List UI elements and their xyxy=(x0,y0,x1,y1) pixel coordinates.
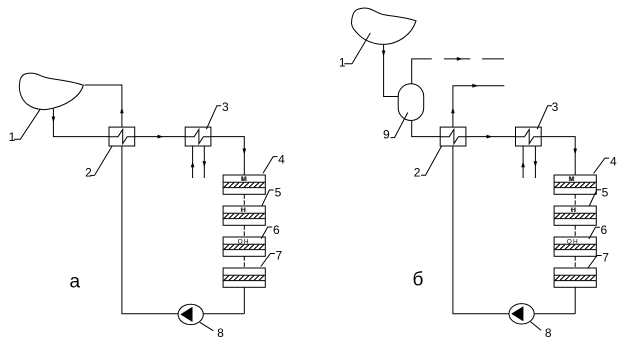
filter 6 (left) xyxy=(223,237,265,256)
cooler 3 (right) xyxy=(516,127,542,146)
cloud 1 (right source) xyxy=(352,8,417,44)
filter 5 (right) xyxy=(554,206,596,225)
svg-text:2: 2 xyxy=(414,166,421,180)
wire separator bottom to HX2 (right) xyxy=(412,121,441,137)
heat exchanger 2 (left) xyxy=(109,127,135,146)
svg-text:6: 6 xyxy=(273,223,280,237)
connector filter5-filter6 (left, dashed) xyxy=(243,225,245,237)
flow arrow right xyxy=(487,135,493,139)
svg-text:M: M xyxy=(241,176,246,183)
connector filter4-filter5 (right, dashed) xyxy=(574,194,576,206)
svg-text:H: H xyxy=(244,238,249,245)
label 8 (right) leader xyxy=(531,322,541,331)
svg-text:7: 7 xyxy=(276,249,283,263)
filter 4 (left) xyxy=(223,175,265,194)
return line HX2 top going right xyxy=(453,86,504,127)
svg-text:б: б xyxy=(413,270,424,291)
separator 9 (vessel) xyxy=(398,84,424,121)
label 1 (left) leader xyxy=(14,109,40,140)
svg-text:H: H xyxy=(571,207,576,214)
svg-text:O: O xyxy=(238,238,243,245)
label 3 (left) leader xyxy=(206,106,221,129)
flow arrow down into loop xyxy=(52,117,56,123)
connector filter6-filter7 (right, dashed) xyxy=(574,256,576,268)
svg-text:H: H xyxy=(241,207,246,214)
bottom return wire (left loop) xyxy=(122,146,244,314)
filter 6 (right) xyxy=(554,237,596,256)
wire cloud to separator 9 xyxy=(384,44,399,97)
vapour line from separator top (dashed) xyxy=(412,59,432,84)
label 3 (right) leader xyxy=(537,106,552,129)
wire cooler 3 to filter stack (left) xyxy=(211,137,244,175)
connector filter5-filter6 (right, dashed) xyxy=(574,225,576,237)
label 7 (left) leader xyxy=(261,254,275,267)
svg-text:3: 3 xyxy=(222,100,229,114)
connector filter4-filter5 (left, dashed) xyxy=(243,194,245,206)
pump 8 (right) xyxy=(509,304,534,324)
label 6 (left) leader xyxy=(261,227,272,239)
wire HX2 to cooler 3 (right) xyxy=(466,136,516,138)
svg-text:H: H xyxy=(573,238,578,245)
flow arrow down xyxy=(573,149,577,155)
label 5 (left) leader xyxy=(262,190,274,206)
cooling outlet arrow down xyxy=(534,161,538,167)
flow arrow down xyxy=(382,51,386,57)
cooling outlet arrow down xyxy=(203,161,207,167)
vapour flow arrow right xyxy=(457,57,463,61)
connector filter6-filter7 (left, dashed) xyxy=(243,256,245,268)
flow arrow up to cloud xyxy=(120,107,124,113)
svg-text:7: 7 xyxy=(602,251,609,265)
cooling water outlet line (right cooler) xyxy=(534,146,536,178)
label 9 leader xyxy=(390,113,407,138)
label 4 (left) leader xyxy=(263,157,278,174)
filter 7 (right) xyxy=(554,268,596,287)
flow arrow down xyxy=(243,149,247,155)
svg-text:4: 4 xyxy=(610,155,617,169)
label 8 (left) leader xyxy=(200,322,214,330)
heat exchanger 2 (right) xyxy=(440,127,466,146)
label 7 (right) leader xyxy=(588,256,602,269)
label 1 (right) leader xyxy=(344,33,370,64)
label 2 (left) leader xyxy=(95,146,113,175)
flow arrow right xyxy=(158,135,164,139)
vapour line dash segment xyxy=(482,58,504,60)
cooling water inlet line (right cooler) xyxy=(522,146,524,178)
cloud 1 (left source) xyxy=(19,73,83,109)
svg-text:8: 8 xyxy=(545,326,552,340)
svg-text:9: 9 xyxy=(383,128,390,142)
bottom return wire (right loop) xyxy=(453,146,575,314)
wire HX2 to cooler 3 xyxy=(135,136,186,138)
svg-text:M: M xyxy=(569,176,574,183)
filter 7 (left) xyxy=(223,268,265,287)
cooling water inlet line (left cooler) xyxy=(192,146,194,178)
pump 8 (left) xyxy=(178,304,203,324)
label 2 (right) leader xyxy=(421,146,442,175)
return arrow right xyxy=(472,84,478,88)
wire cloud to HX2 (down) xyxy=(53,109,109,137)
cooling water outlet line (left cooler) xyxy=(203,146,205,178)
svg-text:а: а xyxy=(70,272,81,293)
wire cooler 3 to filter stack (right) xyxy=(541,137,575,175)
cooling inlet arrow up xyxy=(191,161,195,167)
svg-text:3: 3 xyxy=(552,100,559,114)
svg-text:O: O xyxy=(567,238,572,245)
vapour line dash segment xyxy=(444,58,470,60)
filter 5 (left) xyxy=(223,206,265,225)
label 4 (right) leader xyxy=(594,158,610,173)
svg-text:1: 1 xyxy=(339,56,346,70)
filter 4 (right) xyxy=(554,175,596,194)
return arrow up xyxy=(451,107,455,113)
wire filter 7 down to bottom return (right) xyxy=(574,287,576,314)
svg-text:4: 4 xyxy=(278,153,285,167)
svg-text:5: 5 xyxy=(602,186,609,200)
svg-text:2: 2 xyxy=(85,166,92,180)
label 5 (right) leader xyxy=(589,190,601,206)
wire HX2 top return to cloud xyxy=(85,85,122,127)
svg-text:8: 8 xyxy=(217,326,224,340)
svg-text:1: 1 xyxy=(9,130,16,144)
wire filter 7 down to bottom return (left) xyxy=(243,287,245,313)
svg-text:5: 5 xyxy=(275,186,282,200)
svg-text:6: 6 xyxy=(601,223,608,237)
label 6 (right) leader xyxy=(589,227,600,239)
cooler 3 (left) xyxy=(185,127,211,146)
cooling inlet arrow up xyxy=(521,161,525,167)
